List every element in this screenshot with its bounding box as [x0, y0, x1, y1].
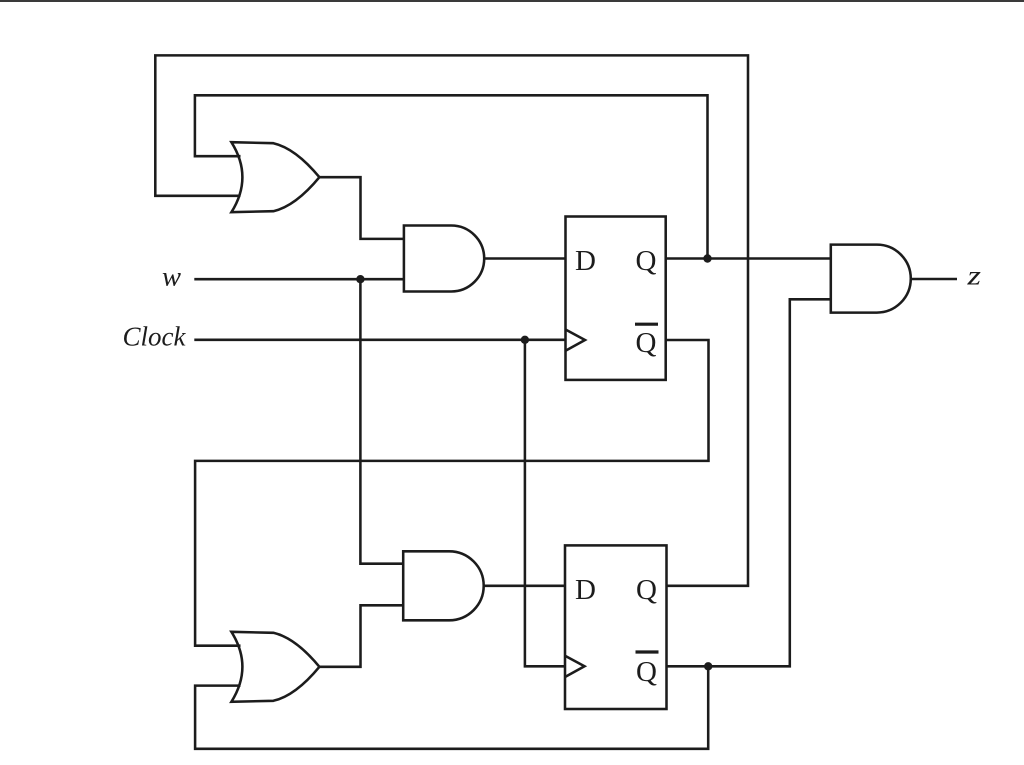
svg-text:Clock: Clock	[123, 322, 187, 352]
svg-text:z: z	[966, 261, 981, 291]
svg-text:Q: Q	[636, 327, 657, 359]
svg-text:D: D	[575, 245, 596, 277]
svg-text:Q: Q	[636, 574, 657, 606]
svg-text:Q: Q	[636, 656, 657, 688]
svg-text:w: w	[162, 262, 181, 292]
svg-text:D: D	[575, 574, 596, 606]
svg-text:Q: Q	[636, 245, 657, 277]
